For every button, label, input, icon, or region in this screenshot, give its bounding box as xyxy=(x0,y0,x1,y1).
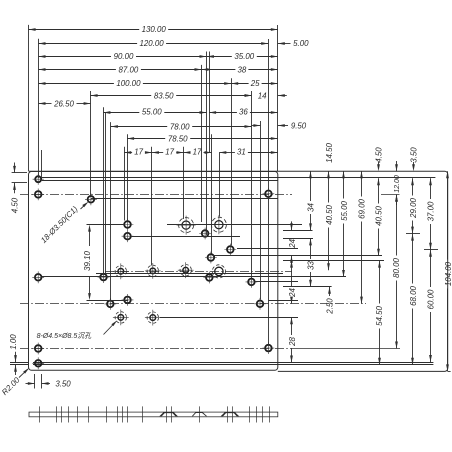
svg-text:120.00: 120.00 xyxy=(140,39,165,48)
svg-text:33: 33 xyxy=(307,261,316,270)
dim 36 xyxy=(209,112,237,114)
side view hole axis ticks xyxy=(39,406,41,422)
short row y=300.7 xyxy=(268,300,298,302)
dim 60.00 xyxy=(430,250,432,287)
dim 3.50 bottom (outside arrows, hole diameter) xyxy=(34,374,36,389)
ext vertical x=201.5 xyxy=(201,65,203,222)
row y=236.2 xyxy=(131,236,240,238)
dim 12.00 outside arrows xyxy=(395,164,398,171)
ext row y=273.2 xyxy=(96,273,283,275)
dim 28 xyxy=(291,317,293,335)
dim 29.00 xyxy=(412,178,414,195)
ext row y=286.7 xyxy=(283,286,332,288)
side view countersunk screw at x=168.6 (filled slant wedges) xyxy=(159,413,165,417)
right part (wide plate) top edge xyxy=(29,171,448,371)
short vertical x=41.8 xyxy=(41,150,43,178)
svg-text:28: 28 xyxy=(288,337,297,347)
dim 37.00 xyxy=(430,178,432,199)
main plate outline xyxy=(29,172,278,371)
svg-text:24: 24 xyxy=(288,238,297,248)
svg-text:83.50: 83.50 xyxy=(154,91,174,100)
counterbore (186,270) xyxy=(183,267,189,273)
hole (127.5,224.5) xyxy=(124,221,131,228)
ext vertical x=28.6 (left edge) xyxy=(28,25,30,171)
svg-text:100.00: 100.00 xyxy=(116,79,141,88)
hole (268,348) xyxy=(265,345,272,352)
svg-text:55.00: 55.00 xyxy=(142,108,162,117)
dim 130.00 xyxy=(29,29,140,31)
ext row y=281.9 from hole xyxy=(255,281,298,283)
svg-text:17: 17 xyxy=(165,148,174,157)
centerline row y=303.6 xyxy=(20,303,366,305)
ext vertical x=211.6 xyxy=(211,134,213,253)
svg-text:130.00: 130.00 xyxy=(142,25,167,34)
hole (268,194) xyxy=(265,191,272,198)
svg-text:80.00: 80.00 xyxy=(392,258,401,278)
svg-text:12.00: 12.00 xyxy=(394,175,401,193)
large counterbore (219,271) xyxy=(215,267,223,275)
svg-text:31: 31 xyxy=(237,148,246,157)
counterbore (121,317) xyxy=(118,315,124,321)
side view countersink trapezoid at x=199.6 xyxy=(192,413,206,417)
svg-text:87.00: 87.00 xyxy=(119,66,139,75)
dim 17 c xyxy=(184,152,191,154)
svg-text:90.00: 90.00 xyxy=(114,52,134,61)
svg-text:39.10: 39.10 xyxy=(83,251,92,271)
ext row y=230.4 xyxy=(283,230,313,232)
counterbore (153,271) xyxy=(150,268,156,274)
svg-text:2.50: 2.50 xyxy=(326,298,335,315)
ext of bottom centerline to 80.00 dim xyxy=(292,348,400,350)
hole A1 (38,179) xyxy=(35,176,41,182)
dim 68.00 xyxy=(412,234,414,284)
ext vertical x=90.6 xyxy=(90,91,92,196)
dim 9.50 (outside arrows, leader to text) xyxy=(253,124,260,127)
dim 104.00 xyxy=(447,171,449,259)
ext vertical x=260.4 xyxy=(260,121,262,300)
ext row y=233.6 xyxy=(406,233,420,235)
svg-text:5.00: 5.00 xyxy=(293,39,309,48)
ext vertical x=219.3 (bolt circle col) xyxy=(219,152,221,216)
svg-text:4.50: 4.50 xyxy=(374,147,383,163)
svg-text:104.00: 104.00 xyxy=(444,261,452,286)
svg-text:38: 38 xyxy=(238,66,247,75)
svg-text:29.00: 29.00 xyxy=(409,198,418,219)
dim 35.00 xyxy=(207,56,232,58)
side view bar xyxy=(29,412,278,417)
ext vertical x=277.8 (right edge) xyxy=(277,25,279,171)
svg-text:9.50: 9.50 xyxy=(291,121,307,130)
counterbore (153,318) xyxy=(150,315,156,321)
left dim 1.00 (outside arrows) xyxy=(10,362,28,364)
svg-text:78.00: 78.00 xyxy=(170,123,190,132)
inner horizontal line y=198 xyxy=(91,198,278,200)
svg-text:4.50: 4.50 xyxy=(11,197,20,213)
dim 40.50 b xyxy=(378,178,380,203)
dim 17 a xyxy=(124,152,132,154)
hole (38,348.5) xyxy=(35,345,42,352)
dim 54.50 xyxy=(379,261,381,304)
svg-text:40.50: 40.50 xyxy=(325,205,334,225)
counterbore (121,271) xyxy=(118,269,124,275)
hole (127.5,300) xyxy=(124,297,131,304)
svg-text:18-Ø3.50(C1): 18-Ø3.50(C1) xyxy=(39,204,80,245)
hole (38,363) xyxy=(35,360,42,367)
dim 25 xyxy=(231,83,248,85)
groove line bottom B xyxy=(33,364,433,366)
hole (110,304) xyxy=(107,301,114,308)
svg-text:R2.00: R2.00 xyxy=(0,375,22,397)
ext vertical x=103.4 xyxy=(103,107,105,273)
hole (127.5,236) xyxy=(124,233,131,240)
dim 78.00 xyxy=(111,126,167,128)
row through bolt circles y=225 xyxy=(167,224,302,226)
dim 55.00 vertical xyxy=(343,171,345,198)
dim 120.00 xyxy=(39,43,138,45)
dim 83.50 xyxy=(91,95,152,97)
svg-text:17: 17 xyxy=(134,148,143,157)
dim 17 b xyxy=(152,152,163,154)
dim 80.00 xyxy=(396,195,398,256)
ext row y=255.8 xyxy=(213,255,382,257)
svg-text:68.00: 68.00 xyxy=(409,286,418,306)
svg-text:3.50: 3.50 xyxy=(410,147,419,163)
dim 38 xyxy=(202,69,236,71)
centerline row y=194 xyxy=(20,194,292,196)
ext vertical x=251.5 xyxy=(251,91,253,278)
svg-text:36: 36 xyxy=(239,108,248,117)
ext row y=249.7 xyxy=(424,249,438,251)
dim 33 xyxy=(310,238,312,259)
hole (230,249.5) xyxy=(227,246,234,253)
bolt hole w/ dashed circle (219,225) xyxy=(215,221,223,229)
dim 24 a (outside arrows) xyxy=(290,223,293,230)
dim 78.50 xyxy=(127,138,165,140)
hole (260,304) xyxy=(257,301,264,308)
ext vertical x=183.5 xyxy=(183,147,185,219)
svg-text:1.00: 1.00 xyxy=(9,334,18,350)
dim 2.50 outside arrows xyxy=(328,287,331,294)
ext vertical x=124.2 xyxy=(124,147,126,221)
bolt hole w/ dashed circle (186,225) xyxy=(182,221,190,229)
svg-text:14.50: 14.50 xyxy=(325,143,334,163)
hole (209,277.5) xyxy=(206,274,213,281)
ext row y=260.6 xyxy=(283,260,384,262)
ext vertical x=110.9 xyxy=(110,122,112,300)
ext vertical x=151.9 xyxy=(151,147,153,266)
ext vertical x=209.1 xyxy=(209,52,211,153)
dim 26.50 xyxy=(39,103,52,105)
svg-text:55.00: 55.00 xyxy=(340,201,349,221)
svg-text:25: 25 xyxy=(250,79,260,88)
svg-text:14: 14 xyxy=(258,91,267,100)
ext row y=317.3 (counterbore row 2) xyxy=(160,317,298,319)
dim 34 xyxy=(310,171,312,201)
centerline row y=271 (counterbore row) xyxy=(105,271,292,273)
ext vertical x=105.7 xyxy=(105,112,107,273)
svg-text:26.50: 26.50 xyxy=(53,99,74,108)
ext vertical x=38.5 xyxy=(38,39,40,178)
svg-text:8-Ø4.5×Ø8.5沉孔: 8-Ø4.5×Ø8.5沉孔 xyxy=(37,332,93,340)
hole (103.5,277) xyxy=(100,274,107,281)
dim 5.00 (outside arrows, leader to text) xyxy=(278,42,285,45)
dim 14 (outside arrows) xyxy=(245,94,252,97)
hole (251.4,282) xyxy=(248,279,255,286)
left dim 4.50 (outside arrows) xyxy=(12,172,27,174)
dim 69.00 xyxy=(361,171,363,196)
dim 40.50 a xyxy=(328,171,330,202)
svg-text:34: 34 xyxy=(307,203,316,212)
ext row y=277 (hole row) xyxy=(42,276,346,278)
svg-text:24: 24 xyxy=(288,288,297,298)
svg-text:37.00: 37.00 xyxy=(427,201,436,221)
hole (205,233.5) xyxy=(202,230,209,237)
svg-text:54.50: 54.50 xyxy=(375,306,384,326)
svg-text:35.00: 35.00 xyxy=(234,52,254,61)
groove line top B xyxy=(42,180,278,182)
centerline vertical x=268.3 down to bottom hole xyxy=(268,198,270,345)
ext vertical x=231.2 xyxy=(231,78,233,245)
svg-text:17: 17 xyxy=(193,148,202,157)
svg-text:60.00: 60.00 xyxy=(427,289,436,309)
ext vertical x=127.1 xyxy=(127,134,129,221)
ext vertical x=268.2 xyxy=(268,39,270,190)
dim 31 xyxy=(219,152,235,154)
dim 100.00 xyxy=(39,83,114,85)
ext vertical x=206.9 xyxy=(206,52,208,236)
ext of centerline to 12.00/80.00 dim xyxy=(381,194,400,196)
groove line top A (extends right as extension) xyxy=(42,177,436,179)
svg-text:3.50: 3.50 xyxy=(55,379,71,388)
svg-text:78.50: 78.50 xyxy=(168,135,188,144)
dim 24 b xyxy=(291,261,293,286)
groove line bottom A (extends right as extension) xyxy=(33,362,433,364)
dim 55.00 xyxy=(103,112,139,114)
svg-text:40.50: 40.50 xyxy=(375,206,384,226)
side view countersunk screw at x=229.9 (filled slant wedges) xyxy=(221,413,227,417)
dim 39.10 vertical xyxy=(87,224,125,226)
hole (38,277) xyxy=(35,274,42,281)
extension of right part bottom edge xyxy=(448,371,451,373)
hole (211,257.5) xyxy=(208,254,215,261)
hole (91,199) target of 18-dia3.50 label xyxy=(88,196,95,203)
centerline row y=348.5 xyxy=(20,348,292,350)
hole A2 (38,194) xyxy=(35,191,42,198)
svg-text:69.00: 69.00 xyxy=(358,199,367,219)
ext row y=238.4 xyxy=(283,238,313,240)
dim 87.00 xyxy=(39,69,116,71)
ext row y=248.9 xyxy=(237,248,298,250)
dim 90.00 xyxy=(39,56,112,58)
